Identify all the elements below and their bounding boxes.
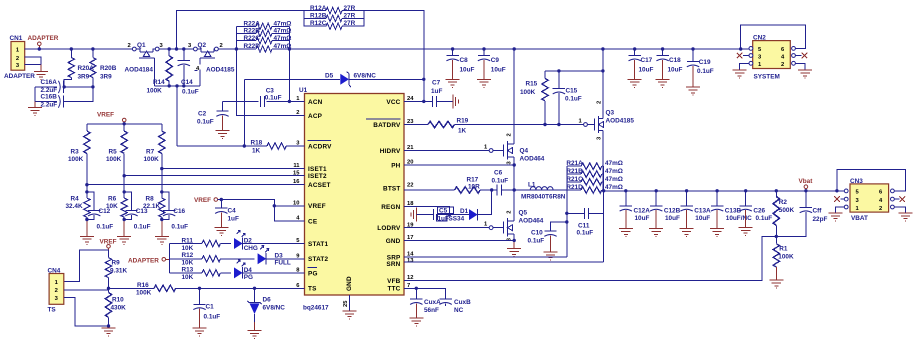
ground at CN3 pin2 bbox=[898, 213, 912, 221]
resistor R20B 3R9 bbox=[90, 49, 117, 87]
svg-text:47mΩ: 47mΩ bbox=[605, 184, 623, 191]
svg-text:ACN: ACN bbox=[308, 99, 323, 106]
svg-text:PG: PG bbox=[244, 274, 253, 281]
junction R20B at rail bbox=[91, 47, 94, 50]
ground at C10 bbox=[544, 252, 558, 260]
svg-text:10uF: 10uF bbox=[668, 66, 683, 73]
resistor R8 22.1K bbox=[143, 169, 165, 220]
svg-text:0.1uF: 0.1uF bbox=[182, 89, 199, 96]
junction bbox=[123, 218, 126, 221]
svg-text:D6: D6 bbox=[263, 297, 272, 304]
wire rail into CN2 pin5 bbox=[741, 48, 749, 50]
svg-text:D2: D2 bbox=[244, 238, 253, 245]
svg-text:C16: C16 bbox=[173, 208, 185, 215]
transistor Q1 AOD4184 bbox=[125, 42, 164, 86]
junction bbox=[513, 239, 516, 242]
resistor R14 100K bbox=[147, 49, 173, 94]
svg-text:Q1: Q1 bbox=[137, 42, 146, 49]
svg-text:1uF: 1uF bbox=[228, 215, 239, 222]
svg-text:D5: D5 bbox=[325, 72, 334, 79]
capacitor C11 0.1uF across sense bbox=[567, 208, 604, 237]
wire Q1 Q2 gate bus to ACDRV bbox=[154, 86, 200, 146]
no-connect X at CN2 pin4 bbox=[802, 53, 808, 59]
svg-text:R12B: R12B bbox=[310, 12, 327, 19]
svg-text:0.1uF: 0.1uF bbox=[756, 215, 773, 222]
svg-text:1K: 1K bbox=[458, 128, 467, 135]
wire rail from R22 to right bbox=[289, 48, 740, 50]
svg-text:R21B: R21B bbox=[566, 168, 583, 175]
svg-text:10K: 10K bbox=[182, 274, 194, 281]
svg-text:R22A: R22A bbox=[244, 21, 261, 28]
svg-text:STAT2: STAT2 bbox=[308, 256, 329, 263]
svg-text:R21C: R21C bbox=[566, 176, 583, 183]
svg-text:100K: 100K bbox=[68, 156, 84, 163]
svg-text:R12A: R12A bbox=[310, 5, 327, 12]
capacitor C10 0.1uF bbox=[528, 222, 567, 252]
svg-text:R6: R6 bbox=[108, 196, 117, 203]
capacitor C13B 10uF/NC bbox=[711, 191, 752, 229]
resistor R10 430K bbox=[105, 288, 126, 326]
svg-text:TS: TS bbox=[48, 307, 57, 314]
wire VFB pin 12 row bbox=[404, 236, 776, 280]
junction bbox=[565, 212, 568, 215]
junction bbox=[565, 220, 568, 223]
wire REGN pin 18 bbox=[404, 206, 450, 214]
svg-text:100K: 100K bbox=[147, 87, 163, 94]
junction bbox=[624, 189, 627, 192]
svg-text:1K: 1K bbox=[252, 147, 261, 154]
capacitor C14 0.1uF bbox=[178, 49, 199, 96]
svg-text:27R: 27R bbox=[344, 5, 356, 12]
svg-text:C12B: C12B bbox=[664, 208, 681, 215]
svg-text:STAT1: STAT1 bbox=[308, 241, 329, 248]
svg-text:500K: 500K bbox=[779, 207, 795, 214]
svg-text:Q5: Q5 bbox=[519, 210, 528, 217]
junction bbox=[182, 84, 185, 87]
svg-text:10uF/NC: 10uF/NC bbox=[726, 215, 752, 222]
resistor R21C 47mOhm bbox=[566, 176, 623, 185]
wire R12 bank output to VCC bbox=[364, 11, 424, 102]
resistor R12C 27R bbox=[304, 18, 364, 29]
svg-text:R11: R11 bbox=[182, 238, 194, 245]
wire ISET2 net pin 15 bbox=[124, 175, 304, 177]
resistor R5 100K bbox=[106, 124, 127, 176]
capacitor C9 10uF bbox=[478, 49, 506, 79]
junction bbox=[160, 167, 163, 170]
svg-text:SYSTEM: SYSTEM bbox=[754, 74, 780, 81]
junction R9 R10 TS bbox=[107, 287, 110, 290]
junction C14 at rail bbox=[182, 47, 185, 50]
svg-text:ACDRV: ACDRV bbox=[308, 143, 332, 150]
svg-text:VREF: VREF bbox=[194, 197, 211, 204]
svg-text:R19: R19 bbox=[457, 118, 469, 125]
svg-text:2: 2 bbox=[596, 101, 602, 104]
svg-text:C16A: C16A bbox=[41, 79, 58, 86]
wire TTC pin 7 bbox=[404, 288, 446, 299]
wire CN2 pin1 to ground bbox=[740, 63, 749, 70]
junction bbox=[557, 123, 560, 126]
junction bbox=[415, 287, 418, 290]
svg-text:0.1uF: 0.1uF bbox=[697, 68, 714, 75]
svg-text:R8: R8 bbox=[146, 196, 155, 203]
junction bbox=[775, 189, 778, 192]
svg-text:VREF: VREF bbox=[308, 203, 326, 210]
resistor R20A 3R9 bbox=[64, 49, 94, 87]
junction bbox=[422, 100, 425, 103]
svg-text:R1: R1 bbox=[779, 246, 788, 253]
junction bbox=[273, 204, 276, 207]
capacitor C16 0.1uF bbox=[162, 192, 188, 236]
svg-text:BTST: BTST bbox=[383, 185, 401, 192]
ground at C12B bbox=[649, 229, 663, 237]
ground at C12A bbox=[619, 229, 633, 237]
junction bbox=[490, 188, 493, 191]
ground at C4 bbox=[214, 228, 228, 236]
svg-text:REGN: REGN bbox=[381, 204, 400, 211]
junction bbox=[451, 47, 454, 50]
svg-text:R12C: R12C bbox=[310, 20, 327, 27]
wire D5 left vertical to ACDRV bbox=[243, 79, 245, 146]
junction bbox=[107, 324, 110, 327]
svg-text:100K: 100K bbox=[144, 156, 160, 163]
svg-text:100K: 100K bbox=[106, 156, 122, 163]
svg-text:R21A: R21A bbox=[566, 160, 583, 167]
LED D2 CHG bbox=[234, 230, 305, 252]
svg-text:C8: C8 bbox=[460, 57, 469, 64]
resistor R4 32.4K bbox=[66, 185, 91, 220]
svg-text:2: 2 bbox=[16, 56, 19, 62]
svg-text:C6: C6 bbox=[494, 169, 503, 176]
resistor R12A 27R inline bbox=[304, 5, 364, 14]
junction bbox=[288, 100, 291, 103]
ground at R6 C13 bbox=[117, 236, 131, 244]
junction bbox=[661, 47, 664, 50]
junction bbox=[804, 189, 807, 192]
svg-text:C1: C1 bbox=[206, 304, 215, 311]
wire HIDRV pin 21 row bbox=[404, 150, 489, 152]
svg-text:FULL: FULL bbox=[275, 260, 291, 267]
resistor R6 10K bbox=[106, 176, 127, 220]
junction R20A at rail bbox=[70, 47, 73, 50]
capacitor C7 1uF bbox=[431, 80, 442, 107]
junction bbox=[123, 190, 126, 193]
wire ACSET net pin 16 bbox=[87, 184, 305, 186]
IC U1 bq24617 body bbox=[299, 87, 404, 312]
wire CN2 pin2 to ground bbox=[795, 63, 805, 70]
svg-text:R16: R16 bbox=[137, 282, 149, 289]
diode D1 SS34 bbox=[449, 190, 492, 223]
svg-text:ISET1: ISET1 bbox=[308, 166, 327, 173]
svg-text:430K: 430K bbox=[111, 305, 127, 312]
wire LODRV pin 19 bbox=[404, 227, 489, 229]
svg-text:10uF: 10uF bbox=[460, 66, 475, 73]
svg-text:SRN: SRN bbox=[386, 261, 400, 268]
junction bbox=[775, 235, 778, 238]
wire R22 right bus down to ACN bbox=[288, 26, 290, 101]
svg-text:VBAT: VBAT bbox=[851, 215, 868, 222]
svg-text:C18: C18 bbox=[669, 57, 681, 64]
resistor R22B 47mOhm bbox=[236, 28, 291, 37]
svg-text:AOD464: AOD464 bbox=[519, 217, 544, 224]
svg-text:C16B: C16B bbox=[41, 94, 58, 101]
wire CN3 pin1 to ground bbox=[835, 207, 844, 213]
svg-text:MR8040T6R8N: MR8040T6R8N bbox=[521, 194, 566, 201]
ground at R10 CN4 bbox=[102, 328, 116, 336]
wire rail Q2 to ACP corner bbox=[218, 48, 236, 50]
svg-text:1uF: 1uF bbox=[438, 215, 449, 222]
svg-text:D4: D4 bbox=[244, 267, 253, 274]
resistor R7 100K bbox=[144, 124, 166, 169]
svg-text:10uF: 10uF bbox=[491, 66, 506, 73]
capacitor C2 0.1uF bbox=[197, 101, 229, 130]
resistor R15 100K bbox=[520, 71, 548, 125]
svg-text:3R9: 3R9 bbox=[78, 74, 90, 81]
capacitor C12A 10uF bbox=[620, 191, 651, 229]
ground at C1 bbox=[193, 328, 207, 336]
svg-text:6V8/NC: 6V8/NC bbox=[263, 305, 286, 312]
svg-text:0.1uF: 0.1uF bbox=[565, 95, 582, 102]
junction bbox=[691, 47, 694, 50]
junction bbox=[123, 174, 126, 177]
svg-text:2: 2 bbox=[879, 206, 882, 212]
capacitor C6 0.1uF bbox=[492, 169, 509, 195]
resistor R22D 47mOhm inline on rail bbox=[236, 43, 291, 52]
capacitor CuxA 56nF bbox=[410, 288, 441, 318]
svg-text:0.1uF: 0.1uF bbox=[97, 224, 114, 231]
ground at D6 bbox=[248, 331, 262, 339]
capacitor CuxB NC bbox=[439, 299, 471, 314]
no-connect X at CN2 pin3 bbox=[737, 53, 743, 59]
junction bbox=[220, 198, 223, 201]
svg-text:U1: U1 bbox=[299, 87, 308, 94]
junction CN1 adapter tap bbox=[38, 47, 41, 50]
svg-text:ISET2: ISET2 bbox=[308, 173, 327, 180]
svg-text:C19: C19 bbox=[699, 59, 711, 66]
svg-text:R13: R13 bbox=[182, 267, 194, 274]
wire CN3 pin2 to ground bbox=[894, 207, 905, 213]
svg-text:C3: C3 bbox=[266, 88, 275, 95]
junction R14 at rail bbox=[168, 47, 171, 50]
ground at C19 bbox=[686, 87, 700, 95]
svg-text:AOD4185: AOD4185 bbox=[606, 117, 635, 124]
svg-text:0.1uF: 0.1uF bbox=[492, 177, 509, 184]
transistor Q5 AOD464 bbox=[484, 190, 544, 249]
ground at CN1 pins 2-3 bbox=[34, 72, 48, 80]
svg-text:R21D: R21D bbox=[566, 184, 583, 191]
IC U1 GND pin 25 wire bbox=[349, 295, 351, 311]
wire C16 pair to ground bbox=[34, 102, 36, 108]
svg-text:47mΩ: 47mΩ bbox=[605, 176, 623, 183]
capacitor Cff 22pF bbox=[776, 191, 827, 237]
svg-text:C13A: C13A bbox=[694, 208, 711, 215]
svg-text:R20B: R20B bbox=[100, 65, 117, 72]
junction bbox=[633, 47, 636, 50]
ground at C13B bbox=[710, 229, 724, 237]
junction bbox=[253, 287, 256, 290]
svg-text:C12A: C12A bbox=[634, 208, 651, 215]
ground at R4 C12 bbox=[80, 236, 94, 244]
junction C16A right bus bbox=[62, 85, 65, 88]
wire CN1 pin2 pin3 to ground bbox=[25, 57, 41, 64]
connector CN1 bbox=[4, 35, 35, 80]
svg-text:C26: C26 bbox=[753, 208, 765, 215]
resistor R12B 27R bbox=[304, 11, 364, 22]
connector CN3 VBAT bbox=[850, 178, 889, 222]
svg-text:10uF: 10uF bbox=[665, 215, 680, 222]
junction bbox=[85, 190, 88, 193]
ground at C2 bbox=[216, 131, 230, 139]
wire R21 left bus and SRP sense bbox=[566, 166, 568, 257]
ground rotated at C5 bbox=[411, 208, 417, 222]
junction bbox=[85, 218, 88, 221]
svg-text:2: 2 bbox=[781, 62, 784, 68]
svg-text:ADAPTER: ADAPTER bbox=[128, 257, 159, 264]
svg-text:0.1uF: 0.1uF bbox=[197, 119, 214, 126]
connector CN2 SYSTEM bbox=[753, 35, 791, 81]
junction bbox=[602, 189, 605, 192]
transistor Q2 AOD4185 bbox=[188, 42, 235, 86]
svg-text:ACSET: ACSET bbox=[308, 182, 331, 189]
svg-text:ADAPTER: ADAPTER bbox=[28, 35, 59, 42]
junction bbox=[744, 189, 747, 192]
no-connect X at CN3 pin4 bbox=[900, 196, 906, 202]
wire BTST pin 22 row bbox=[404, 189, 567, 191]
wire CN2 top loop pin5 to pin6 bbox=[741, 25, 806, 49]
junction bbox=[175, 47, 178, 50]
junction bbox=[198, 287, 201, 290]
wire GND pin 17 row bbox=[404, 239, 514, 241]
svg-text:C2: C2 bbox=[198, 111, 207, 118]
svg-text:NC: NC bbox=[454, 307, 464, 314]
wire CN4 pin3 to bottom ground row bbox=[64, 297, 109, 326]
junction bbox=[655, 189, 658, 192]
capacitor C26 0.1uF bbox=[740, 191, 773, 228]
svg-text:22: 22 bbox=[407, 182, 413, 188]
svg-text:13: 13 bbox=[407, 258, 414, 264]
junction bbox=[243, 144, 246, 147]
svg-text:GND: GND bbox=[346, 276, 353, 291]
svg-text:R4: R4 bbox=[71, 196, 80, 203]
junction bbox=[422, 78, 425, 81]
svg-text:CN1: CN1 bbox=[10, 35, 23, 42]
resistor R9 9.31K bbox=[105, 250, 127, 288]
svg-text:D1: D1 bbox=[460, 208, 469, 215]
resistor R2 500K bbox=[773, 191, 794, 237]
junction bbox=[160, 190, 163, 193]
resistor R12 10K bbox=[170, 252, 255, 266]
svg-text:14: 14 bbox=[407, 252, 414, 258]
node ADAPTER net label at LED bus bbox=[128, 257, 170, 264]
resistor R19 1K bbox=[428, 118, 469, 135]
capacitor C15 0.1uF bbox=[545, 71, 603, 125]
ground at R8 C16 bbox=[155, 236, 169, 244]
node VREF net label top bbox=[97, 112, 126, 124]
svg-text:22.1K: 22.1K bbox=[143, 203, 160, 210]
svg-text:CuxA: CuxA bbox=[424, 299, 441, 306]
svg-text:0.1uF: 0.1uF bbox=[265, 95, 282, 102]
transistor Q3 AOD4185 bbox=[579, 49, 635, 191]
ground at C9 bbox=[477, 79, 491, 87]
wire ACDRV row bbox=[177, 145, 305, 147]
svg-text:R3: R3 bbox=[71, 149, 80, 156]
svg-text:6V8/NC: 6V8/NC bbox=[354, 72, 377, 79]
junction bbox=[685, 189, 688, 192]
junction bbox=[123, 122, 126, 125]
capacitor C5 1uF bbox=[416, 207, 469, 223]
capacitor C16A 2.2uF bbox=[35, 79, 93, 94]
svg-text:TTC: TTC bbox=[387, 286, 400, 293]
svg-text:10uF: 10uF bbox=[695, 215, 710, 222]
svg-text:Q4: Q4 bbox=[520, 148, 529, 155]
svg-text:C13B: C13B bbox=[725, 208, 742, 215]
CN2 pin circles bbox=[749, 47, 753, 51]
capacitor C8 10uF bbox=[446, 49, 474, 79]
svg-text:56nF: 56nF bbox=[424, 307, 439, 314]
svg-text:CHG: CHG bbox=[244, 245, 258, 252]
diode D6 6V8/NC zener bbox=[247, 288, 285, 330]
svg-text:AOD464: AOD464 bbox=[520, 155, 545, 162]
ground at R1 bbox=[769, 280, 783, 288]
ground at C17 bbox=[628, 79, 642, 87]
resistor R11 10K bbox=[170, 238, 231, 252]
capacitor C16B 2.2uF bbox=[35, 87, 93, 109]
svg-text:100K: 100K bbox=[136, 289, 152, 296]
svg-text:C15: C15 bbox=[566, 88, 578, 95]
svg-text:27R: 27R bbox=[344, 12, 356, 19]
svg-text:Q2: Q2 bbox=[198, 42, 207, 49]
node ADAPTER net label at CN1 bbox=[28, 35, 59, 48]
junction bbox=[168, 84, 171, 87]
resistor R21B 47mOhm bbox=[566, 168, 623, 177]
svg-text:LODRV: LODRV bbox=[377, 225, 401, 232]
svg-text:3R9: 3R9 bbox=[100, 74, 112, 81]
no-connect X at CN3 pin3 bbox=[834, 196, 840, 202]
svg-text:PG: PG bbox=[308, 270, 318, 277]
svg-text:2: 2 bbox=[55, 288, 58, 294]
svg-text:10K: 10K bbox=[182, 259, 194, 266]
LED D4 PG bbox=[234, 260, 305, 282]
junction bbox=[601, 47, 604, 50]
svg-text:AOD4185: AOD4185 bbox=[206, 66, 235, 73]
svg-text:C17: C17 bbox=[641, 57, 653, 64]
capacitor C12B 10uF bbox=[650, 191, 681, 229]
resistor R17 10R bbox=[455, 176, 481, 193]
diode D5 6V8/NC zener ACDRV to VCC bbox=[244, 72, 423, 87]
svg-text:10uF: 10uF bbox=[635, 215, 650, 222]
resistor R3 100K bbox=[68, 124, 90, 185]
wire VREF to pin10 and CE bbox=[218, 200, 305, 222]
transistor Q4 AOD464 bbox=[484, 49, 545, 165]
svg-text:2.2uF: 2.2uF bbox=[41, 102, 58, 109]
svg-text:47mΩ: 47mΩ bbox=[605, 160, 623, 167]
svg-text:10K: 10K bbox=[182, 245, 194, 252]
wire VREF rail over divider bbox=[87, 123, 162, 125]
capacitor C13A 10uF bbox=[680, 191, 711, 229]
svg-text:0.1uF: 0.1uF bbox=[577, 230, 594, 237]
svg-text:GND: GND bbox=[386, 238, 401, 245]
svg-text:10R: 10R bbox=[468, 183, 480, 190]
svg-text:Vbat: Vbat bbox=[799, 178, 814, 185]
junction bbox=[85, 183, 88, 186]
wire battery rail into CN3 pin5 and top loop bbox=[837, 170, 906, 191]
svg-text:CuxB: CuxB bbox=[454, 299, 471, 306]
resistor R22A 47mOhm bbox=[236, 21, 291, 30]
junction bbox=[739, 47, 742, 50]
LED D3 FULL bbox=[258, 246, 305, 267]
ground rotated at C7 bbox=[453, 94, 459, 108]
svg-text:PH: PH bbox=[391, 163, 400, 170]
junction bbox=[175, 84, 178, 87]
